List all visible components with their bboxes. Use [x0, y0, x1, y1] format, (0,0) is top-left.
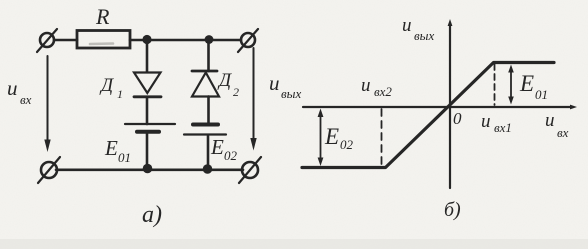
- svg-text:u: u: [361, 75, 371, 96]
- graph vertical axis: [449, 24, 451, 188]
- wire resistor to output terminal: [130, 39, 241, 42]
- node junction dot 3: [143, 164, 153, 174]
- svg-text:E: E: [324, 124, 339, 149]
- transfer characteristic curve: [302, 63, 554, 168]
- wire node2 to diode D2: [207, 40, 210, 71]
- svg-text:R: R: [95, 4, 110, 29]
- svg-text:02: 02: [224, 148, 238, 163]
- svg-text:0: 0: [453, 109, 462, 128]
- battery E01: [125, 124, 175, 132]
- svg-text:u: u: [402, 15, 412, 36]
- wire D1 to battery E01: [146, 97, 149, 124]
- diode D1: [134, 73, 161, 97]
- diode D2: [192, 71, 219, 97]
- svg-text:u: u: [7, 76, 18, 100]
- svg-text:Д: Д: [99, 75, 114, 96]
- wire node1 to diode D1: [146, 40, 149, 72]
- terminal bottom-left: [38, 157, 60, 183]
- svg-text:1: 1: [117, 87, 123, 101]
- svg-text:01: 01: [535, 87, 548, 102]
- wire D2 to battery E02: [207, 97, 210, 125]
- wire terminal to resistor: [54, 39, 77, 42]
- output voltage arrow u_vyx: [250, 48, 256, 151]
- svg-text:02: 02: [340, 137, 354, 152]
- node junction dot 4: [203, 164, 213, 174]
- terminal top-left: [37, 29, 57, 52]
- svg-text:Д: Д: [217, 70, 232, 91]
- node junction dot 2: [205, 35, 214, 44]
- svg-text:E: E: [104, 136, 118, 160]
- faint scan band at bottom edge: [0, 239, 588, 249]
- resistor R: [77, 31, 130, 49]
- svg-text:u: u: [545, 110, 555, 131]
- graph horizontal axis u_vx: [303, 106, 572, 108]
- svg-text:E: E: [519, 71, 534, 96]
- dashed line at u_vx1: [494, 64, 496, 105]
- terminal bottom-right: [239, 157, 261, 183]
- bottom rail wire: [56, 169, 243, 172]
- svg-text:вх2: вх2: [374, 84, 392, 99]
- svg-text:б): б): [444, 199, 461, 221]
- E01 measure arrow: [508, 65, 514, 105]
- svg-text:01: 01: [118, 150, 131, 165]
- svg-text:u: u: [481, 111, 491, 132]
- svg-text:вх1: вх1: [494, 120, 512, 135]
- svg-text:вых: вых: [281, 86, 301, 101]
- svg-text:а): а): [142, 202, 162, 228]
- E02 measure arrow: [318, 109, 324, 167]
- svg-text:u: u: [269, 71, 280, 95]
- svg-text:вх: вх: [557, 125, 569, 140]
- svg-text:вх: вх: [20, 92, 32, 107]
- terminal top-right: [238, 29, 258, 52]
- svg-text:E: E: [210, 135, 224, 159]
- svg-text:вых: вых: [414, 28, 434, 43]
- input voltage arrow u_vx: [44, 56, 50, 152]
- battery E02: [184, 125, 226, 135]
- dashed line at u_vx2: [381, 109, 383, 165]
- wire E02 to bottom rail: [207, 136, 210, 169]
- wire E01 to bottom rail: [146, 133, 149, 169]
- resistor inner scan smudge: [90, 42, 113, 45]
- svg-text:2: 2: [233, 85, 239, 99]
- node junction dot 1: [142, 35, 151, 44]
